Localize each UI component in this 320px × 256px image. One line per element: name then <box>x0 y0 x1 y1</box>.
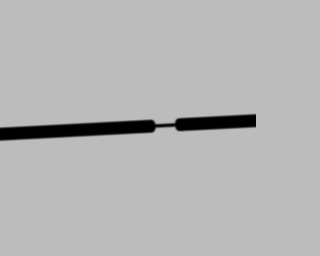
wire <box>0 120 156 142</box>
wire <box>150 123 182 128</box>
wire <box>175 114 271 132</box>
